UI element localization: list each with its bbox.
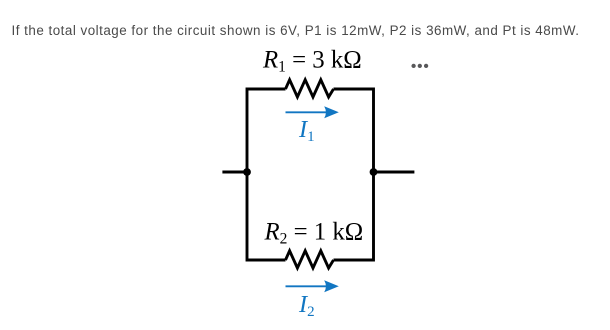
wire right lead [374,171,415,174]
wire left lead [222,171,247,174]
svg-text:I2: I2 [298,291,315,320]
resistor R2 [286,251,334,268]
svg-text:R1 = 3 kΩ: R1 = 3 kΩ [262,47,362,76]
svg-text:R2 = 1 kΩ: R2 = 1 kΩ [264,219,364,248]
wire bottom-left segment [247,259,286,262]
wire top-right segment [334,88,374,91]
node right junction [370,168,378,176]
current arrow I2 [286,280,339,292]
wire left vertical [246,88,249,262]
wire top-left segment [247,88,286,91]
resistor R1 [286,80,334,97]
question text [12,22,580,39]
current arrow I1 [286,106,339,118]
node left junction [243,168,251,176]
wire right vertical [372,88,375,262]
svg-text:I1: I1 [298,116,315,145]
wire bottom-right segment [334,259,374,262]
ellipsis dots [411,64,428,68]
